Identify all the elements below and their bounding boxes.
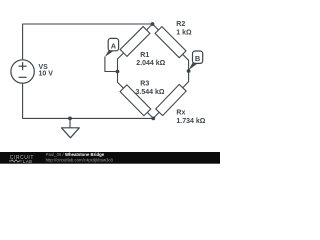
wire bottom from source to bottom vertex bbox=[23, 83, 154, 118]
svg-text:10 V: 10 V bbox=[39, 71, 54, 78]
node flag A bbox=[105, 38, 119, 57]
resistor R1 bbox=[118, 24, 153, 59]
wire right vertex down bbox=[188, 71, 190, 82]
svg-text:1.734 kΩ: 1.734 kΩ bbox=[176, 118, 205, 125]
svg-text:2.044 kΩ: 2.044 kΩ bbox=[136, 60, 165, 67]
node flag B bbox=[189, 51, 203, 70]
ground bbox=[62, 128, 80, 138]
resistor Rx bbox=[153, 82, 188, 119]
label Rx 1.734 kΩ bbox=[176, 109, 205, 125]
wire top from source to top vertex bbox=[23, 24, 153, 60]
voltage source VS bbox=[11, 60, 34, 83]
junction ground bbox=[68, 117, 72, 121]
junction right vertex (node B) bbox=[187, 69, 191, 73]
footer bar bbox=[0, 152, 220, 164]
label R1 2.044 kΩ bbox=[136, 52, 165, 67]
wire left vertex down bbox=[117, 72, 119, 83]
svg-text:1 kΩ: 1 kΩ bbox=[176, 29, 192, 36]
resistor R3 bbox=[118, 82, 154, 118]
svg-text:R3: R3 bbox=[140, 81, 149, 88]
footer logo zigzag bbox=[9, 160, 22, 162]
resistor R2 bbox=[153, 24, 189, 60]
footer logo CIRCUIT LAB bbox=[10, 155, 34, 164]
label R3 3.544 kΩ bbox=[136, 81, 165, 97]
svg-text:A: A bbox=[111, 42, 117, 51]
svg-text:B: B bbox=[195, 54, 200, 63]
label R2 1 kΩ bbox=[176, 21, 192, 36]
label VS 10 V bbox=[39, 64, 54, 78]
svg-text:Rx: Rx bbox=[176, 109, 185, 116]
junction top vertex bbox=[151, 22, 155, 26]
wire node A to left vertex bbox=[105, 57, 118, 72]
svg-text:R2: R2 bbox=[176, 21, 185, 28]
junction left vertex (node A) bbox=[116, 70, 120, 74]
svg-text:http://circuitlab.com/c4px9jkb: http://circuitlab.com/c4px9jkbsw3c8 bbox=[46, 157, 114, 162]
wire ground stub bbox=[69, 118, 71, 127]
wire left vertex up bbox=[117, 59, 119, 72]
junction bottom vertex bbox=[151, 117, 155, 121]
svg-text:3.544 kΩ: 3.544 kΩ bbox=[136, 89, 165, 96]
svg-text:R1: R1 bbox=[140, 52, 149, 59]
svg-text:LAB: LAB bbox=[23, 159, 33, 164]
wire right vertex up bbox=[188, 60, 190, 71]
